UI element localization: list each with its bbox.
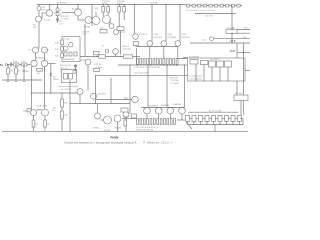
junction ladder/speaker	[231, 29, 232, 39]
transistor VT11	[103, 12, 111, 24]
svg-text:47k: 47k	[10, 71, 13, 73]
output transistor VT24	[161, 34, 177, 46]
net label +70V	[149, 1, 158, 4]
emitter resistor labels lower	[136, 127, 159, 132]
emitter resistor row lower	[137, 119, 176, 125]
regulator U5	[217, 61, 224, 67]
svg-text:na obshej plate: na obshej plate	[189, 75, 203, 78]
svg-text:Усилитель мощности с выходным: Усилитель мощности с выходным каскадом к…	[64, 141, 136, 144]
capacitor C2 shunt	[23, 65, 30, 81]
value rows mid	[83, 31, 90, 37]
wire right x243.5	[243, 43, 244, 115]
capacitor C12	[124, 120, 127, 126]
svg-text:2SC5200: 2SC5200	[154, 37, 163, 39]
net label mid2	[117, 1, 126, 5]
wire x122 down	[120, 31, 122, 55]
transistor VT15	[91, 93, 132, 99]
regulator U6	[225, 61, 232, 67]
svg-text:KD522: KD522	[119, 32, 126, 34]
wire input	[7, 64, 10, 66]
regulator U2	[190, 60, 198, 65]
net label mid1	[102, 1, 111, 5]
title text	[111, 136, 119, 139]
capacitor C1	[10, 63, 13, 67]
wire relay down to bus	[236, 43, 237, 95]
predriver parts	[123, 42, 139, 51]
svg-text:4.7k: 4.7k	[21, 61, 25, 63]
svg-text:2x2SC2240: 2x2SC2240	[37, 105, 48, 107]
output bus wire	[118, 64, 237, 65]
resistor R9 between emitters	[37, 69, 43, 76]
svg-text:2SA1943: 2SA1943	[173, 103, 182, 106]
svg-text:2SC4793: 2SC4793	[98, 94, 107, 96]
annotation italic rows	[59, 85, 79, 91]
PSU sub-box	[188, 58, 246, 81]
resistor R2	[21, 61, 27, 66]
capacitor C4 feedback	[49, 74, 58, 81]
resistor R17 box	[117, 12, 124, 31]
wire right vertical from ladder	[231, 6, 233, 44]
lower stage verticals	[130, 65, 185, 114]
transistor VT9	[78, 16, 92, 29]
opto U1b	[69, 43, 73, 47]
transistor VT13	[80, 59, 91, 91]
input connector X1	[0, 63, 7, 67]
protection row bus	[186, 117, 244, 119]
emitter drops upper	[150, 46, 187, 58]
resistor R27	[61, 99, 69, 107]
svg-text:2SC5200: 2SC5200	[182, 37, 191, 39]
emitter resistor labels upper	[134, 67, 161, 74]
diff pair VT6 VT7	[31, 57, 48, 67]
regulator U3	[201, 61, 209, 65]
feedback wire	[48, 64, 56, 94]
svg-text:Fuse 4A: Fuse 4A	[227, 26, 235, 29]
transistor VT19	[101, 116, 112, 124]
transistor VT17	[37, 105, 49, 116]
wire x92	[91, 5, 93, 27]
bridge label	[210, 59, 220, 61]
resistor R3 shunt	[7, 65, 13, 81]
svg-text:330: 330	[64, 103, 68, 105]
capacitor C6	[94, 45, 105, 54]
wire R1-R2	[19, 64, 22, 66]
net label +35V left	[56, 1, 67, 4]
trimmer RP2 X box	[61, 69, 76, 82]
transistor VT20	[114, 115, 121, 131]
driver bus wire y56.5	[80, 56, 140, 57]
ladder value labels	[186, 10, 216, 12]
svg-text:R18: R18	[55, 42, 60, 44]
svg-text:BTA16 600B: BTA16 600B	[63, 58, 75, 61]
svg-text:2.2k: 2.2k	[83, 34, 87, 36]
svg-text:1k: 1k	[18, 71, 20, 73]
copyright text	[143, 141, 173, 144]
sub-box parts	[63, 52, 77, 61]
output transistor VT29	[167, 103, 185, 114]
transistor VT14	[77, 89, 83, 104]
current source chain wire x39	[38, 5, 40, 49]
label R29	[52, 108, 57, 113]
ground symbol 3	[23, 80, 26, 82]
svg-text:8x 10 Om 2Bt: 8x 10 Om 2Bt	[209, 109, 222, 112]
svg-text:330: 330	[64, 115, 68, 117]
resistor R22	[124, 55, 133, 58]
diode VD6	[105, 50, 108, 53]
svg-text:C 4x 10000mk: C 4x 10000mk	[189, 78, 202, 80]
svg-text:BC556: BC556	[44, 20, 51, 22]
bias values text	[95, 64, 103, 69]
annotation left of PSU box	[170, 78, 179, 85]
resistor R11 column	[56, 11, 62, 16]
wire cascode links	[36, 53, 45, 60]
opto U1a	[64, 46, 68, 50]
svg-text:L1 2mkGn: L1 2mkGn	[170, 83, 179, 85]
transistor VT2	[36, 16, 52, 22]
box R30	[23, 109, 31, 113]
output stage verticals from rail	[134, 5, 180, 42]
svg-text:C6: C6	[102, 45, 105, 47]
svg-text:12x 0.22Om 5Bt: 12x 0.22Om 5Bt	[134, 71, 149, 74]
resistor R1	[13, 61, 19, 66]
wire mid horizontal y93	[31, 92, 79, 93]
svg-text:2SA1943: 2SA1943	[161, 104, 170, 107]
svg-text:R19: R19	[55, 49, 60, 51]
PSU internal verticals	[196, 64, 228, 81]
wire x62 down	[61, 93, 63, 99]
transistor VT12 driver	[113, 49, 119, 57]
svg-text:1mk: 1mk	[13, 61, 17, 63]
output transistor VT28	[155, 104, 170, 114]
svg-text:KT961: KT961	[93, 128, 100, 130]
cluster labels	[93, 128, 122, 132]
svg-text:ust. 0.25 Bt: ust. 0.25 Bt	[61, 88, 72, 91]
off-page label AC	[243, 28, 248, 30]
diff pair VT4 VT5	[29, 47, 50, 53]
svg-text:1k: 1k	[60, 9, 62, 11]
emitter resistor row upper R35 group	[137, 59, 179, 65]
ground bus	[2, 79, 42, 81]
value text block left	[61, 16, 69, 20]
svg-text:C11 100n: C11 100n	[123, 48, 132, 50]
wire R2 to VT1 base	[27, 64, 31, 66]
label VT2 values	[33, 25, 37, 30]
lower parts box	[124, 114, 137, 119]
top power rail wire	[37, 4, 186, 6]
ladder bracket annotation	[195, 13, 236, 17]
ground symbol 2	[15, 80, 18, 82]
svg-text:0.1 0.1 0.1 0.1 0.1 0.1 0.1 0.: 0.1 0.1 0.1 0.1 0.1 0.1 0.1 0.1 0.1	[186, 10, 216, 12]
bottom rail wire	[2, 130, 248, 132]
svg-text:KP142EH8: KP142EH8	[189, 56, 200, 58]
ground symbol 1	[7, 80, 10, 82]
resistor col R19	[55, 47, 63, 52]
svg-text:22: 22	[47, 124, 50, 126]
svg-text:47k 1Bt: 47k 1Bt	[83, 31, 90, 34]
diode VD1	[37, 7, 48, 12]
wire right stub y70.5	[243, 69, 250, 71]
wire x111 bias drop	[110, 79, 112, 104]
svg-text:47n: 47n	[52, 110, 55, 112]
svg-text:Bce rezistory na plate: Bce rezistory na plate	[59, 85, 79, 88]
svg-text:220mk: 220mk	[53, 79, 59, 81]
svg-text:10x 1 Bt: 10x 1 Bt	[205, 15, 213, 18]
svg-text:+35 B 6A: +35 B 6A	[149, 1, 158, 4]
svg-text:2SA1943: 2SA1943	[149, 105, 158, 108]
svg-text:2SC5200: 2SC5200	[168, 37, 177, 39]
wire psu to driver	[183, 57, 188, 59]
transistor VT8	[62, 5, 82, 17]
svg-text:Out: Out	[243, 36, 247, 39]
wire diffpair legs	[32, 67, 45, 110]
resistor ladder chain R40-R49 top right	[186, 4, 242, 7]
transistor VT22 predriver	[133, 34, 149, 40]
bottom mid cluster VT18	[95, 104, 101, 120]
resistor R28	[61, 107, 69, 131]
svg-text:2x2SA970: 2x2SA970	[36, 57, 46, 60]
protection row drops	[188, 121, 240, 124]
svg-text:-35 B: -35 B	[229, 50, 235, 53]
transistor VT26 predriver lower	[124, 96, 139, 103]
zener VD2	[56, 16, 58, 23]
wire y103.5	[70, 103, 130, 105]
protection bracket annotation	[188, 109, 238, 112]
supply wire +35 right	[190, 40, 250, 43]
wire coil down	[240, 101, 242, 116]
svg-text:Bx.: Bx.	[0, 63, 4, 67]
wire x95.6	[95, 75, 97, 103]
resistor R31	[32, 116, 39, 132]
fuse F1 on speaker line	[226, 26, 250, 33]
svg-text:100: 100	[26, 71, 30, 73]
regulator U4	[209, 61, 216, 67]
svg-text:2SA: 2SA	[124, 97, 128, 100]
resistor pair R15 R16	[118, 5, 126, 13]
resistor col R18	[55, 40, 63, 45]
resistor R10 column top	[56, 5, 62, 12]
resistor col R20	[55, 53, 63, 58]
trimmer RP1	[100, 28, 107, 33]
label C5 block	[59, 21, 63, 25]
PSU label top	[189, 56, 200, 58]
svg-text:R7: R7	[29, 50, 32, 52]
svg-text:© Иванов 2010 г.: © Иванов 2010 г.	[143, 141, 173, 144]
resistor R24	[94, 69, 100, 72]
svg-text:100: 100	[59, 24, 63, 26]
svg-text:+35 B: +35 B	[229, 40, 236, 43]
transistor VT21	[123, 112, 129, 132]
svg-text:K1 РЭС: K1 РЭС	[235, 93, 243, 95]
subtitle text	[64, 141, 136, 144]
PSU internal text	[189, 75, 203, 81]
diode VD4	[114, 30, 127, 35]
resistor R21	[99, 55, 106, 58]
svg-text:2x150: 2x150	[117, 3, 123, 5]
svg-text:2SC4793: 2SC4793	[139, 34, 148, 36]
resistor pair R13 R14	[95, 5, 110, 13]
svg-text:R8: R8	[46, 50, 49, 52]
diode VD3	[109, 20, 114, 29]
resistor R4 shunt	[15, 65, 20, 81]
svg-text:BD140: BD140	[115, 128, 122, 130]
emitter drops lower	[147, 114, 182, 120]
svg-text:100: 100	[37, 73, 41, 75]
svg-text:220: 220	[33, 27, 37, 29]
svg-text:PA05M: PA05M	[111, 136, 119, 139]
svg-text:T1 triac: T1 triac	[63, 38, 70, 41]
transistor VT16	[31, 110, 37, 116]
wire lower bus	[122, 119, 187, 121]
svg-text:R13: R13	[95, 8, 100, 10]
resistor R32	[44, 116, 51, 131]
box R33	[121, 108, 128, 112]
svg-text:K1.1: K1.1	[203, 40, 208, 42]
protection row lower wire	[186, 118, 243, 131]
off-page label GND	[243, 36, 247, 39]
svg-text:22: 22	[36, 124, 39, 126]
wire x85 VAS drop	[84, 24, 86, 57]
supply wire -35 right	[229, 50, 250, 53]
output transistor VT25	[175, 34, 191, 46]
relay K1 output contact	[203, 37, 251, 42]
zener VD5	[74, 64, 77, 70]
output transistor VT27	[144, 105, 158, 114]
servo sub-box U1	[62, 37, 80, 62]
svg-text:R20: R20	[55, 55, 60, 57]
output transistor VT23	[147, 34, 163, 46]
svg-text:0.22 0.22 0.22 0.22 0.22 0.22: 0.22 0.22 0.22 0.22 0.22 0.22	[134, 67, 161, 69]
right small box labels lower	[186, 117, 191, 122]
transistor VT3	[42, 5, 58, 20]
protection resistor row	[186, 115, 242, 121]
transistor VT10	[92, 12, 100, 25]
relay coil K1 box	[234, 93, 248, 100]
mid horizontal wire y75.3	[96, 74, 237, 76]
left value list	[60, 65, 72, 72]
base bus wire upper	[136, 45, 178, 47]
wire x136.5 driver drop	[136, 48, 138, 65]
wire x70 long	[69, 80, 71, 131]
